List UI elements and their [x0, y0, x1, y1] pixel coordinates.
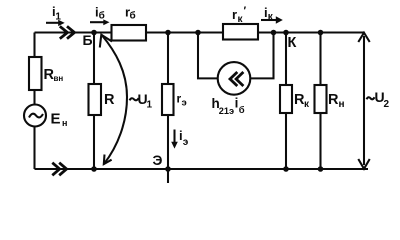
svg-text:э: э [183, 137, 189, 148]
arrow iк [261, 19, 277, 21]
svg-text:б: б [99, 10, 105, 22]
chevrons inside current source [230, 72, 237, 86]
resistor rк' [223, 24, 258, 40]
resistor rэ [162, 84, 174, 115]
node loop right on top rail [271, 30, 277, 36]
wire: bottom rail (common/emitter) [35, 168, 369, 170]
node Э [165, 166, 171, 172]
svg-text:E: E [51, 111, 61, 128]
tilde inside Eн [29, 114, 43, 118]
chevron arrows on bottom rail [52, 163, 59, 176]
svg-text:б: б [130, 10, 136, 22]
arrow iэ [173, 130, 175, 143]
resistor Rн [315, 85, 327, 113]
svg-text:2: 2 [384, 99, 390, 110]
svg-text:вн: вн [54, 74, 64, 83]
chevron arrows on top rail [60, 26, 68, 38]
arrow iб [90, 21, 104, 23]
voltage arrow U2 (vertical double-headed) [363, 36, 365, 165]
label ~U1 [130, 98, 139, 100]
node loop left on top rail [195, 30, 201, 36]
node К [283, 30, 289, 36]
wire: current-source loop left side [198, 33, 218, 79]
node Rк tap on bottom rail [283, 166, 289, 172]
wire: base branch below node Б [93, 33, 95, 170]
svg-text:н: н [339, 99, 345, 110]
wire: current-source loop right side [250, 33, 273, 79]
svg-text:r: r [232, 7, 237, 22]
wire: top rail from input corner to output [35, 31, 365, 33]
svg-text:1: 1 [55, 12, 61, 23]
svg-text:R: R [104, 92, 115, 108]
svg-text:i: i [235, 96, 239, 111]
wire: collector branch Rк [285, 33, 287, 170]
svg-text:′: ′ [244, 5, 247, 17]
svg-text:Б: Б [83, 32, 93, 48]
node base tap on bottom rail [91, 166, 97, 172]
wire: load branch Rн [319, 33, 321, 170]
resistor rб [112, 25, 147, 41]
node Б [91, 30, 97, 36]
resistor Rк [280, 85, 292, 113]
wire: left source branch vertical [33, 33, 35, 170]
wire: emitter branch rэ vertical (extends below bottom rail) [167, 33, 169, 184]
svg-text:21э: 21э [219, 106, 234, 116]
node rэ tap on top rail [165, 30, 171, 36]
current source h21э·iб (circle with double chevron) [218, 62, 251, 95]
source Eн (AC source circle) [24, 105, 46, 127]
svg-text:н: н [62, 118, 67, 128]
arrow i1 (current direction above left rail) [46, 22, 59, 24]
node Rн tap on bottom rail [318, 166, 324, 172]
svg-text:К: К [288, 35, 297, 51]
voltage arrow U1 (curved double-headed) [101, 35, 127, 165]
node Rн tap on top rail [318, 30, 324, 36]
svg-text:к: к [304, 99, 310, 110]
svg-text:1: 1 [147, 100, 153, 111]
resistor R [89, 84, 102, 115]
svg-text:э: э [182, 98, 187, 109]
svg-text:R: R [328, 92, 339, 108]
svg-text:б: б [239, 105, 245, 116]
resistor Rвн [29, 57, 42, 90]
svg-text:Э: Э [153, 152, 163, 168]
label ~U2 [367, 97, 375, 99]
